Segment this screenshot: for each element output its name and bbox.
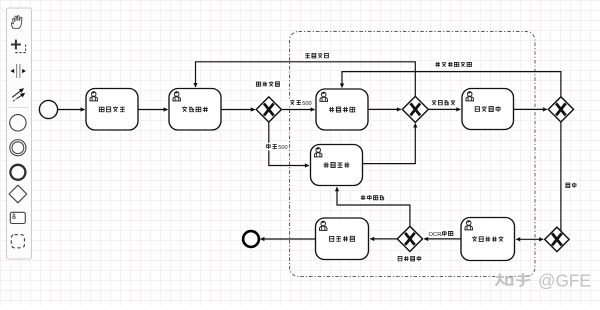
label 确认 [564,182,579,190]
wire G1 down to 销售主管 (小于500) [269,122,309,165]
wire 销售经理 to gateway G2 [368,108,401,110]
hand tool icon [11,16,21,29]
wire G1 to 销售经理 (大于500) [281,109,314,111]
palette start event icon [10,115,26,131]
palette group icon [11,235,24,248]
gateway G1 exclusive (审批金额) [256,97,281,122]
task 区长确认 (district confirm) [462,89,514,130]
svg-text:@GFE: @GFE [538,270,591,290]
wire G2 to 区长确认 (变更通过) [428,108,460,110]
palette gateway icon [9,185,27,203]
task 销售经理 (sales manager) [316,89,368,130]
wire G2 top loop to 发起审批 (无需变更) [196,62,416,96]
watermark 知乎 @GFE [496,270,591,290]
wire G3 down to G5 (确认) [560,122,562,232]
wire G3 top loop to 销售经理 (转交经理处理) [342,72,561,97]
wire 负责销售 to end event [260,238,315,240]
palette task icon [10,212,25,223]
label 变更通过 [430,99,458,107]
svg-text:500: 500 [302,101,312,107]
label 转交经理处理 [433,61,473,69]
wire 客户端签字 to G5 (double arrow) [516,238,543,240]
gateway G5 exclusive [545,227,569,251]
wire start to task 用户登录 [58,109,85,111]
palette panel [7,8,32,259]
label 审批金额 [254,80,282,88]
group (dashed subprocess boundary) [290,32,536,277]
label 线下审核 [359,194,387,202]
wire G4 to 负责销售 [370,238,397,240]
task 销售主管 (sales supervisor) [311,145,363,186]
end event [243,231,259,247]
lasso tool icon [11,40,26,53]
label 大于500 [289,99,312,107]
wire G4 up to 销售主管 (线下审核) [337,187,410,226]
wire 发起审批 to gateway G1 [221,109,255,111]
palette separator [9,107,29,109]
global connect tool icon [12,88,25,101]
task 客户端签字 (client sign) [461,218,515,261]
gateway G4 exclusive (身份确认) [397,226,422,251]
space tool icon [10,64,26,78]
wire 客户端签字 to G4 (OCR/认证) [424,238,461,240]
svg-text:500: 500 [278,145,288,151]
wire 区长确认 to gateway G3 [514,108,547,110]
start event [39,100,57,118]
gateway G2 exclusive [402,96,428,122]
label 小于500 [265,143,288,151]
palette end event icon [10,165,25,180]
task 发起审批 (start approval) [169,89,221,131]
label OCR/认证 [428,229,458,238]
label 身份确认 [396,255,424,263]
label 无需变更 [303,52,331,60]
task 负责销售 (responsible sales) [316,218,369,260]
palette intermediate event icon [10,140,26,156]
wire 销售主管 to G2 bottom [363,124,416,164]
gateway G3 exclusive [548,97,573,122]
task 用户登录 (user login) [86,89,138,131]
svg-text:OCR/: OCR/ [429,232,444,238]
wire 用户登录 to 发起审批 [138,109,167,111]
